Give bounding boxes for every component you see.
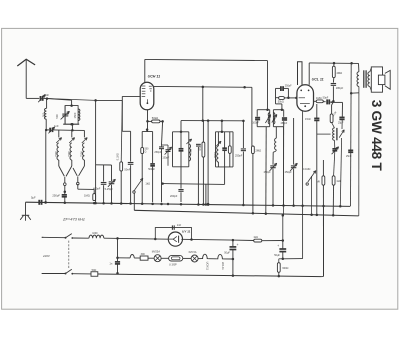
wire avc col down xyxy=(293,118,295,165)
mains terminals xyxy=(42,237,44,273)
junction dots lower bus xyxy=(252,212,335,217)
resistor 0.5M xyxy=(199,121,205,204)
capacitor 200pF IFT1 bottom xyxy=(170,190,184,202)
tube UCH11 xyxy=(140,82,154,110)
screen loop xyxy=(298,62,303,85)
svg-text:1kΩ: 1kΩ xyxy=(336,180,341,183)
wire grid cap to NFB xyxy=(330,102,342,116)
svg-text:1kΩ: 1kΩ xyxy=(145,181,150,185)
svg-text:0.1MΩ: 0.1MΩ xyxy=(303,168,311,171)
dial lamp 1 xyxy=(152,251,161,262)
oscillator band coil L5 7500 xyxy=(80,138,88,160)
fuse resistor box xyxy=(91,269,98,276)
speaker horn xyxy=(385,70,390,89)
wire tank junction down xyxy=(59,130,72,137)
svg-text:250pF: 250pF xyxy=(264,171,272,174)
svg-text:1kΩ: 1kΩ xyxy=(253,236,258,239)
wire H1 top xyxy=(145,59,268,60)
IFT2 coil 750 xyxy=(214,132,221,167)
oscillator band coil L4 7500 xyxy=(67,138,75,160)
det cap 250pF xyxy=(281,118,288,125)
svg-text:1MΩ: 1MΩ xyxy=(316,96,322,100)
heater-AVC bus xyxy=(134,210,358,216)
wire trimmer top xyxy=(162,144,169,146)
resistor 1k B+ xyxy=(253,236,261,242)
svg-text:5-25pF: 5-25pF xyxy=(105,187,114,191)
wire det3 down xyxy=(283,127,285,205)
junction dots ground bus xyxy=(44,201,341,207)
label ZF=473 kHz xyxy=(62,216,85,221)
heater line 3 xyxy=(161,257,169,259)
det loop 1 frame xyxy=(257,108,270,126)
svg-text:100pF: 100pF xyxy=(252,123,259,125)
wire anode branch down xyxy=(202,87,205,122)
svg-text:UY 11: UY 11 xyxy=(182,230,191,234)
wire plate top xyxy=(144,59,146,82)
AVC cap 250pF xyxy=(276,85,293,98)
capacitor 250pF af2 xyxy=(285,163,298,206)
wire det col 266 xyxy=(265,127,267,215)
capacitor 15nF xyxy=(305,104,319,215)
trimmer capacitor 5nF xyxy=(38,93,49,102)
OT core xyxy=(364,70,366,88)
OT secondary winding xyxy=(368,72,370,87)
resistor 1M grid xyxy=(316,96,323,103)
svg-text:0.1MΩ: 0.1MΩ xyxy=(116,153,119,160)
svg-text:750Ω: 750Ω xyxy=(214,152,217,158)
bypass loop UY11 xyxy=(155,228,192,241)
wire AVC left xyxy=(45,131,47,203)
label UCH11 xyxy=(148,75,161,79)
resistor 4M xyxy=(332,63,342,78)
svg-text:250pF: 250pF xyxy=(52,194,60,198)
padding caps pair wire xyxy=(96,165,112,182)
speaker magnet xyxy=(378,75,385,85)
wire 50k down xyxy=(162,121,163,145)
input tank loop xyxy=(63,104,79,125)
svg-text:390: 390 xyxy=(141,253,146,256)
switch blade top xyxy=(65,234,74,239)
B+ choke column xyxy=(273,127,276,165)
trimmer cap xyxy=(162,145,171,166)
switch blade bottom xyxy=(65,269,74,274)
IFT2 cap xyxy=(222,132,227,167)
resistor 5k xyxy=(318,160,325,276)
svg-text:500: 500 xyxy=(55,114,59,119)
switch link xyxy=(68,241,70,269)
heater UCH11 xyxy=(201,254,210,270)
svg-text:5nF: 5nF xyxy=(44,93,49,97)
OT primary winding xyxy=(357,72,359,87)
wire IFT1 bottom down xyxy=(180,167,182,189)
svg-text:UCH 11: UCH 11 xyxy=(148,75,161,79)
pot 1k xyxy=(133,178,150,193)
wire antenna to C1 xyxy=(26,97,39,99)
det loop 1 cap 100pF xyxy=(252,118,260,125)
choke coil 1000 xyxy=(89,232,104,238)
band switch contact S1a xyxy=(59,160,72,186)
capacitor 25nF xyxy=(346,150,353,157)
svg-text:400pF: 400pF xyxy=(93,186,101,190)
det loop 2 frame xyxy=(273,108,283,126)
label 1n cap column xyxy=(109,238,120,274)
wire B+ 1 xyxy=(233,239,254,241)
mains wire top xyxy=(42,236,65,238)
oscillator branches xyxy=(142,128,152,203)
svg-text:UCH11: UCH11 xyxy=(206,262,210,271)
det loop 2 coil xyxy=(272,113,277,124)
svg-text:25µF: 25µF xyxy=(338,121,344,124)
tube UCL11 xyxy=(297,85,314,111)
AF coil xyxy=(332,123,337,141)
svg-text:50kΩ: 50kΩ xyxy=(152,116,158,120)
resistor 1M xyxy=(84,193,96,200)
svg-text:7500: 7500 xyxy=(54,151,58,157)
heater line 5 xyxy=(198,258,201,260)
AVC resistor 50k xyxy=(276,97,298,104)
heater dropper 390 xyxy=(140,253,148,260)
band switch contact S1b xyxy=(73,160,84,185)
svg-text:6V0.5A: 6V0.5A xyxy=(189,251,197,254)
electrolytic 50uF 2 xyxy=(274,241,286,259)
IFT2 feed xyxy=(221,120,224,134)
svg-text:1000: 1000 xyxy=(92,232,98,235)
heater UCL11 xyxy=(216,254,225,270)
capacitor 5uF xyxy=(31,196,47,205)
wire UCL plate xyxy=(309,62,358,85)
capacitor 400pF xyxy=(93,183,106,204)
svg-text:600Ω: 600Ω xyxy=(282,267,288,270)
wire UY out xyxy=(181,239,234,242)
svg-text:50kΩ: 50kΩ xyxy=(278,100,284,103)
svg-text:Ω: Ω xyxy=(145,151,147,153)
wire jog xyxy=(122,100,130,161)
wire tank to grid xyxy=(47,99,96,101)
svg-text:MV25A: MV25A xyxy=(152,251,161,254)
dial lamp 2 xyxy=(189,251,199,262)
heater line 6 xyxy=(209,258,216,260)
NFB thermistor xyxy=(339,120,344,206)
UCL11 internals xyxy=(299,90,310,108)
tube UY11 xyxy=(168,232,182,246)
svg-text:50µF: 50µF xyxy=(224,251,230,254)
capacitor at v198 xyxy=(196,144,201,146)
IFT1 cap 200pF xyxy=(179,121,184,167)
resistor 0.1M xyxy=(330,111,337,123)
svg-text:2MΩ: 2MΩ xyxy=(255,148,261,152)
heater line xyxy=(118,254,141,258)
speaker frame xyxy=(370,67,383,92)
coil 1500 xyxy=(73,109,80,121)
mains wire top 2 xyxy=(72,237,89,239)
svg-text:UCL11: UCL11 xyxy=(221,262,225,270)
wire plate to OT xyxy=(358,63,360,71)
label UCL11 xyxy=(312,78,324,82)
wire v323 ground drop xyxy=(322,206,324,277)
grid wire UCL xyxy=(314,100,317,102)
wire B+ 2 xyxy=(262,239,284,242)
svg-text:150pF: 150pF xyxy=(162,157,169,160)
ground stub + ground symbol xyxy=(20,202,31,221)
svg-text:U 3/5P: U 3/5P xyxy=(169,264,177,267)
svg-text:250pF: 250pF xyxy=(285,171,293,174)
svg-text:5µF: 5µF xyxy=(31,196,36,200)
capacitor 250pF af1 xyxy=(264,163,277,205)
capacitor below coil xyxy=(332,140,339,175)
antenna coil 500 xyxy=(41,99,47,132)
AVC node left xyxy=(275,88,277,104)
svg-text:250pF: 250pF xyxy=(235,153,243,157)
wire v198 xyxy=(197,147,199,204)
svg-text:500pF: 500pF xyxy=(148,168,155,171)
svg-text:1nF: 1nF xyxy=(177,224,182,227)
resistor 600 ohm xyxy=(277,259,288,276)
IFT2 res xyxy=(228,132,231,167)
wire B+ riser xyxy=(282,214,285,240)
ground bus xyxy=(26,202,351,206)
capacitor 250pF switch xyxy=(52,192,67,203)
svg-text:250pF: 250pF xyxy=(285,85,292,88)
svg-text:UCL 11: UCL 11 xyxy=(312,78,324,82)
svg-text:500: 500 xyxy=(41,112,45,117)
wire y120 link xyxy=(181,120,245,122)
svg-text:15nF: 15nF xyxy=(305,117,311,121)
svg-text:7500: 7500 xyxy=(67,151,71,157)
IF transformer 2 box xyxy=(216,132,234,167)
svg-text:ZF=473 kHz: ZF=473 kHz xyxy=(62,216,85,221)
wire H1 down right xyxy=(267,61,269,111)
wire v208 xyxy=(207,119,210,205)
UY11 internals xyxy=(169,236,179,243)
capacitor 10nF xyxy=(124,163,133,203)
urdox resistor xyxy=(169,256,183,267)
svg-text:1MΩ: 1MΩ xyxy=(84,193,90,197)
wire grid line right xyxy=(96,96,123,100)
capacitor 250pF det xyxy=(235,120,246,205)
label UY11 xyxy=(182,230,191,234)
IFT1 coil 750 xyxy=(186,139,192,161)
wire UCH grid xyxy=(122,95,140,97)
capacitor 1nF xyxy=(46,124,59,133)
svg-text:250pF: 250pF xyxy=(281,123,288,125)
resistor cath xyxy=(332,176,341,216)
wire cap2 to riser xyxy=(282,258,303,261)
heater line 7 xyxy=(224,258,234,261)
AVC bottom jog xyxy=(276,104,282,110)
electrolytic 50uF 1 xyxy=(224,240,238,276)
mains wire bottom 2 xyxy=(72,273,91,275)
oscillator resistor 500 xyxy=(141,147,149,153)
grid wire vertical x96 xyxy=(94,99,97,203)
resistor 2M det xyxy=(252,146,262,213)
wire S1b to 1M resistor xyxy=(78,184,94,194)
svg-text:50pF: 50pF xyxy=(323,96,329,99)
resistor 0.1M left xyxy=(116,100,122,202)
wire node A to input tank xyxy=(47,99,72,106)
trimmer 5-25pF xyxy=(105,179,116,203)
wire OT to heater bus xyxy=(358,93,360,216)
svg-text:1nF: 1nF xyxy=(54,124,59,128)
IF transformer 1 box xyxy=(173,132,189,167)
svg-text:+: + xyxy=(277,244,279,248)
heater line 2 xyxy=(148,257,154,259)
wire C1 to node A xyxy=(44,97,49,100)
wire cathode down xyxy=(146,110,149,132)
wire 1nF to band coils xyxy=(54,123,85,137)
wire tap to coil xyxy=(317,133,331,135)
label 220V xyxy=(42,254,51,258)
svg-text:50µF: 50µF xyxy=(274,254,280,257)
svg-text:4MΩ: 4MΩ xyxy=(336,71,342,75)
wire B+ OT xyxy=(350,63,359,206)
volume pot 0.1M xyxy=(303,168,316,215)
svg-text:50Ω: 50Ω xyxy=(92,269,97,272)
oscillator band coil L3 7500 xyxy=(54,138,62,160)
mains wire bottom 3 xyxy=(98,274,322,277)
heater line 4 xyxy=(183,257,192,259)
svg-text:750Ω: 750Ω xyxy=(189,149,192,155)
resistor 50k xyxy=(148,116,164,123)
svg-text:200pF: 200pF xyxy=(170,194,178,198)
svg-text:250pF: 250pF xyxy=(154,151,161,154)
svg-text:1500: 1500 xyxy=(73,112,77,118)
svg-text:220V: 220V xyxy=(42,254,51,258)
mains wire top 3 xyxy=(104,237,169,240)
UCH11 internal grids xyxy=(142,86,152,104)
wire v302 cath riser xyxy=(302,111,304,258)
svg-text:7500: 7500 xyxy=(80,151,84,157)
svg-text:180pF: 180pF xyxy=(336,86,344,90)
wire IFT2 bottom xyxy=(161,167,224,204)
capacitor 250pF mid xyxy=(154,145,164,202)
bus L left riser xyxy=(133,190,135,210)
wire S1a to ground bus xyxy=(64,186,67,194)
wire grid col down xyxy=(332,102,334,114)
svg-text:3 GW 448 T: 3 GW 448 T xyxy=(369,100,384,172)
capacitor 180pF xyxy=(331,78,344,103)
antenna xyxy=(17,59,35,98)
title 3 GW 448 T xyxy=(369,100,384,172)
wire v283 drop xyxy=(283,127,285,215)
wire anode UCH xyxy=(154,86,252,89)
oscillator cap 500pF xyxy=(148,164,155,171)
NFB capacitor 25nF xyxy=(338,117,345,124)
svg-text:+: + xyxy=(237,243,239,247)
bypass cap 1nF xyxy=(172,224,181,230)
mains wire bottom xyxy=(42,273,65,275)
det loop 1 coil xyxy=(265,113,270,124)
wire osc anode right down xyxy=(251,87,253,146)
grid cap xyxy=(323,96,334,104)
variable capacitor 500pF xyxy=(55,106,69,124)
svg-text:50nF: 50nF xyxy=(124,167,130,171)
